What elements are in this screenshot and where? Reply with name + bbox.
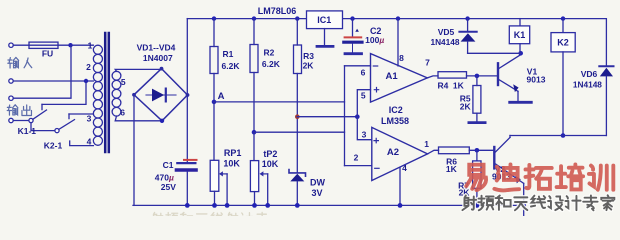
wire to K1-1: [13, 120, 29, 122]
svg-text:IC1: IC1: [317, 15, 331, 25]
svg-text:R4: R4: [437, 80, 448, 90]
svg-text:5: 5: [361, 91, 366, 101]
wire tap5 to bridge: [115, 69, 161, 71]
wire R2 node to comparator column: [254, 131, 345, 133]
potentiometer tP2: [253, 132, 255, 160]
plus mark A2: [374, 138, 378, 142]
wire fuse feed: [13, 44, 70, 46]
node rail K2: [561, 16, 565, 20]
wire VD5 anode to V1 collector: [468, 52, 521, 54]
wire reference to pin5: [357, 90, 370, 117]
wire A2 output: [428, 150, 439, 154]
terminal output L: [9, 96, 13, 100]
node fuse junction: [68, 43, 72, 47]
ground rail bottom: [133, 204, 524, 206]
wire K2-1 contact to tap3: [69, 113, 93, 115]
wire bridge minus drop: [133, 95, 135, 206]
potentiometer RP1: [213, 102, 215, 160]
svg-text:IC2: IC2: [389, 105, 403, 115]
plus mark A1: [374, 88, 378, 92]
svg-text:RP1: RP1: [224, 148, 242, 158]
transformer primary winding: [93, 45, 102, 54]
node rail C2: [350, 16, 354, 20]
ground R5: [469, 121, 485, 124]
transformer secondary winding: [112, 71, 121, 80]
node rail pin4: [398, 203, 403, 208]
resistor R1: [213, 19, 215, 47]
pin8 supply: [397, 19, 399, 66]
svg-text:1N4007: 1N4007: [143, 53, 173, 63]
wire reference to pin3: [357, 117, 372, 140]
node rail R3: [295, 16, 299, 20]
capacitor C2: [352, 19, 354, 37]
diode VD5: [467, 19, 469, 31]
fuse FU: [29, 42, 58, 48]
minus mark A2: [375, 167, 379, 169]
node rail DW: [295, 203, 300, 208]
minus mark A1: [373, 65, 377, 67]
svg-text:A: A: [218, 91, 225, 102]
svg-text:100µ: 100µ: [365, 35, 384, 45]
ground V1: [510, 101, 532, 104]
svg-text:LM358: LM358: [381, 116, 409, 126]
ground IC1: [324, 29, 326, 46]
svg-text:DW: DW: [310, 178, 325, 188]
watermark red yidituopeixun: [466, 164, 613, 190]
svg-text:2: 2: [354, 153, 359, 163]
svg-text:10K: 10K: [262, 159, 279, 169]
svg-text:2K: 2K: [303, 61, 315, 71]
svg-text:A1: A1: [386, 71, 399, 82]
node rail VD5: [465, 16, 469, 20]
node R3 bottom: [295, 114, 300, 119]
power rail top: [187, 19, 606, 67]
bridge rectifier VD1-VD4: [134, 69, 188, 121]
wire tap1: [71, 44, 94, 46]
wire A1 output: [427, 76, 438, 78]
switch K1-1: [29, 118, 33, 122]
svg-text:10K: 10K: [223, 158, 240, 168]
wire pivot bracket: [31, 123, 55, 131]
svg-text:6.2K: 6.2K: [262, 59, 281, 69]
svg-text:8: 8: [399, 53, 404, 63]
capacitor C1: [184, 159, 197, 161]
svg-text:1: 1: [424, 139, 429, 149]
node base V2: [475, 148, 480, 153]
node A: [212, 100, 217, 105]
wire K2-1 lower contact to tap4: [70, 141, 94, 146]
svg-text:2K: 2K: [460, 102, 472, 112]
node rail R1: [212, 16, 216, 20]
node rail R7: [475, 203, 480, 208]
op-amp A2: [372, 127, 428, 180]
svg-text:C1: C1: [163, 160, 174, 170]
resistor R5: [476, 76, 478, 86]
pin4 ground drop: [399, 167, 401, 205]
node rail C1: [185, 203, 190, 208]
svg-text:1N4148: 1N4148: [430, 37, 459, 47]
terminal input N: [9, 79, 13, 83]
svg-text:5: 5: [121, 77, 126, 87]
node base V1: [475, 74, 480, 79]
label output terminals: [7, 105, 31, 116]
svg-text:1: 1: [88, 41, 93, 51]
wire pin2 stub: [345, 165, 372, 167]
wire tap2: [13, 80, 93, 82]
node rail tP2 wiper: [265, 203, 270, 208]
svg-text:K1: K1: [514, 30, 526, 40]
svg-text:LM78L06: LM78L06: [258, 6, 297, 16]
svg-text:3: 3: [87, 113, 92, 123]
zener DW: [289, 170, 306, 177]
svg-text:FU: FU: [42, 48, 53, 58]
node reference tee: [355, 114, 360, 119]
wire bridge plus riser: [186, 19, 188, 95]
resistor R4: [438, 72, 467, 78]
IC1 regulator LM78L06: [307, 11, 343, 29]
node tap2 junction: [84, 79, 88, 83]
svg-text:1K: 1K: [453, 80, 465, 90]
svg-text:25V: 25V: [161, 182, 176, 192]
wire K1-1 contact to tap2: [42, 81, 86, 104]
svg-text:A2: A2: [387, 147, 399, 158]
svg-text:1N4148: 1N4148: [573, 80, 602, 90]
transistor V2: [493, 147, 495, 168]
relay K2: [562, 19, 564, 33]
resistor R7: [476, 150, 478, 161]
watermark remnant bottom left: [152, 212, 268, 224]
terminal output N: [9, 118, 13, 122]
svg-text:R3: R3: [303, 51, 314, 61]
svg-text:2: 2: [86, 62, 91, 72]
wire V2 collector bus: [510, 135, 606, 137]
svg-text:6: 6: [361, 68, 366, 78]
resistor R2: [253, 19, 255, 45]
svg-text:9013: 9013: [527, 75, 546, 85]
svg-text:K2-1: K2-1: [44, 140, 63, 150]
label input terminals: [8, 57, 32, 68]
diode VD6: [599, 65, 613, 67]
svg-text:K2: K2: [557, 37, 569, 47]
svg-text:4: 4: [87, 137, 92, 147]
relay K1: [519, 19, 521, 26]
node rail tP2: [252, 203, 257, 208]
wire output L riser: [13, 45, 71, 98]
svg-text:R2: R2: [263, 48, 274, 58]
svg-text:4: 4: [402, 163, 407, 173]
svg-text:1K: 1K: [446, 164, 458, 174]
wire pin6 stub: [345, 65, 371, 67]
watermark gray slogan: [462, 195, 614, 210]
terminal input L: [9, 43, 13, 47]
svg-text:K1-1: K1-1: [18, 126, 37, 136]
wire tap6 to bridge: [115, 116, 162, 121]
node V1 collector: [518, 51, 523, 56]
wire inverting column: [344, 66, 346, 166]
svg-text:6: 6: [120, 108, 125, 118]
node K2 bottom: [561, 133, 566, 138]
wire reference: [297, 116, 357, 118]
node R2 bottom: [252, 130, 257, 135]
svg-text:VD1--VD4: VD1--VD4: [137, 42, 176, 52]
svg-text:VD6: VD6: [581, 69, 598, 79]
node rail V2 emitter: [521, 203, 526, 208]
svg-text:VD5: VD5: [438, 27, 455, 37]
svg-text:3V: 3V: [311, 188, 322, 198]
switch K2-1: [55, 129, 59, 133]
wire node A to comparator column: [214, 101, 345, 103]
transformer core: [104, 33, 107, 152]
op-amp A1: [371, 54, 428, 103]
resistor R3: [296, 19, 298, 45]
svg-text:6.2K: 6.2K: [222, 61, 241, 71]
wire bridge plus to C1: [186, 95, 188, 162]
resistor R6: [439, 147, 470, 154]
svg-text:R1: R1: [222, 49, 233, 59]
node rail R2: [252, 16, 256, 20]
svg-text:7: 7: [425, 58, 430, 68]
transistor V1: [497, 63, 499, 85]
node rail RP1 wiper: [225, 203, 230, 208]
svg-text:tP2: tP2: [263, 149, 277, 159]
node rail RP1: [212, 203, 217, 208]
node rail pin8: [396, 16, 400, 20]
wire C1 to ground rail: [186, 172, 188, 206]
svg-text:3: 3: [362, 129, 367, 139]
